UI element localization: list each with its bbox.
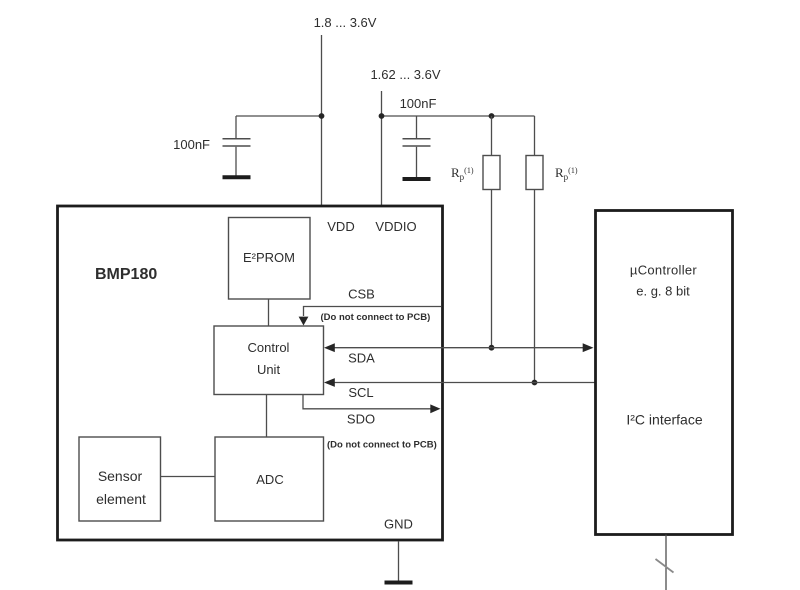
svg-text:BMP180: BMP180	[95, 266, 157, 283]
wire SDA	[333, 347, 585, 349]
arrow CSB into Control Unit	[299, 317, 309, 326]
arrow SDO right	[430, 404, 440, 413]
svg-text:(Do not connect to PCB): (Do not connect to PCB)	[321, 312, 431, 323]
capacitor C1 100nF	[223, 116, 251, 176]
arrow SDA left	[324, 343, 335, 352]
svg-text:I²C interface: I²C interface	[626, 412, 702, 428]
arrow SDA right	[583, 343, 594, 352]
junction R1 top	[489, 113, 495, 119]
svg-text:100nF: 100nF	[173, 137, 210, 152]
svg-text:(Do not connect to PCB): (Do not connect to PCB)	[327, 440, 437, 451]
wire VDD rail vertical	[321, 35, 323, 205]
svg-text:SCL: SCL	[348, 385, 373, 400]
IC U1 BMP180 outline	[58, 206, 443, 540]
wire Control Unit to ADC	[266, 395, 268, 438]
block E2PROM	[229, 218, 311, 300]
arrow SCL left	[324, 378, 335, 387]
svg-text:1.62 ... 3.6V: 1.62 ... 3.6V	[370, 67, 440, 82]
svg-text:100nF: 100nF	[400, 96, 437, 111]
svg-text:1.8 ... 3.6V: 1.8 ... 3.6V	[314, 15, 377, 30]
block Control Unit	[214, 326, 324, 395]
svg-text:VDDIO: VDDIO	[375, 219, 416, 234]
ground C1	[223, 175, 251, 179]
IC U2 microcontroller outline	[596, 211, 733, 535]
wire CSB	[304, 307, 442, 317]
svg-text:Control: Control	[248, 340, 290, 355]
svg-text:E²PROM: E²PROM	[243, 250, 295, 265]
junction VDDIO rail	[379, 113, 385, 119]
wire GND	[398, 541, 400, 581]
svg-text:element: element	[96, 491, 146, 507]
wire VDDIO rail horizontal to pull-ups	[382, 115, 535, 117]
wire Sensor element to ADC	[161, 476, 216, 478]
svg-text:µController: µController	[630, 263, 698, 278]
ground GND bar	[385, 581, 413, 585]
svg-text:Sensor: Sensor	[98, 468, 143, 484]
wire SCL	[333, 382, 595, 384]
svg-text:Unit: Unit	[257, 362, 281, 377]
ground slash uController	[656, 559, 674, 573]
ground C2	[403, 177, 431, 181]
wire uController ground	[665, 535, 667, 590]
svg-text:VDD: VDD	[327, 219, 354, 234]
svg-text:SDA: SDA	[348, 351, 375, 366]
svg-text:CSB: CSB	[348, 287, 375, 302]
wire E2PROM to Control Unit	[268, 299, 270, 326]
wire VDDIO rail vertical	[381, 91, 383, 205]
block Sensor element	[79, 437, 161, 521]
junction R1 bottom on SDA	[489, 345, 495, 351]
resistor R1 pull-up	[483, 116, 500, 348]
capacitor C2 100nF	[403, 116, 431, 177]
junction VDD rail	[319, 113, 325, 119]
wire SDO	[303, 395, 432, 409]
wire VDD to C1 horizontal	[236, 115, 322, 117]
svg-text:SDO: SDO	[347, 412, 375, 427]
junction R2 bottom on SCL	[532, 380, 538, 386]
block ADC	[215, 437, 324, 521]
svg-text:ADC: ADC	[256, 472, 283, 487]
svg-text:GND: GND	[384, 517, 413, 532]
svg-text:e. g. 8 bit: e. g. 8 bit	[636, 284, 690, 299]
resistor R2 pull-up	[526, 116, 543, 383]
